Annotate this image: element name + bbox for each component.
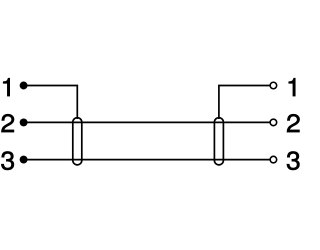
- terminal pin3 right (open circle): [270, 156, 277, 163]
- wire pin1 right to shield: [219, 86, 274, 120]
- pin label 2 (left): [1, 114, 14, 132]
- terminal pin2 left (solid dot): [20, 118, 28, 126]
- terminal pin1 left (solid dot): [20, 82, 28, 90]
- terminal pin3 left (solid dot): [20, 156, 28, 164]
- pin label 1 (right): [289, 78, 296, 96]
- cable shield right (stadium): [214, 118, 223, 165]
- terminal pin1 right (open circle): [270, 82, 277, 89]
- pin label 3 (left): [1, 151, 14, 170]
- cable shield left (stadium): [73, 118, 82, 165]
- terminal pin2 right (open circle): [270, 119, 277, 126]
- pin label 3 (right): [287, 151, 300, 170]
- wire pin3 left to pin3 right: [24, 159, 274, 161]
- wire pin2 left to pin2 right: [24, 121, 274, 123]
- wire pin1 left to shield: [24, 86, 78, 120]
- pin label 1 (left): [3, 78, 10, 96]
- pin label 2 (right): [287, 114, 300, 132]
